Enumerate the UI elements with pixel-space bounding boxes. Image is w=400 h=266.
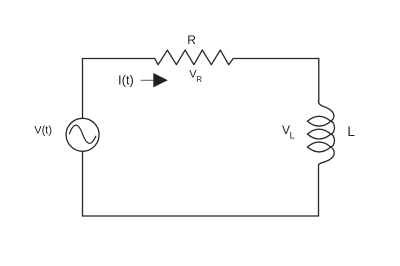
wire: top-right segment <box>233 58 319 60</box>
wire: left side upper <box>82 59 84 119</box>
inductor L entry hook <box>319 101 334 122</box>
inductor L loop 3 <box>307 142 330 152</box>
inductor L exit hook <box>319 147 335 165</box>
svg-text:L: L <box>347 124 355 139</box>
wire: right side lower <box>318 165 320 216</box>
resistor R <box>155 50 234 65</box>
svg-text:R: R <box>187 33 196 47</box>
wire: right side upper <box>318 59 320 101</box>
inductor L loop 2 <box>307 129 330 139</box>
wire: left side lower <box>82 151 84 216</box>
svg-text:V(t): V(t) <box>34 124 52 136</box>
inductor L link arc 2-3 <box>331 134 335 147</box>
current arrow head <box>153 73 168 87</box>
svg-text:R: R <box>196 75 202 84</box>
inductor L loop 1 <box>307 116 330 126</box>
AC voltage source V(t) circle <box>66 118 99 151</box>
wire: bottom segment <box>83 215 319 217</box>
current arrow shaft <box>141 79 153 81</box>
wire: top-left segment <box>83 58 155 60</box>
svg-text:I(t): I(t) <box>118 73 134 88</box>
svg-text:L: L <box>290 131 295 141</box>
AC voltage source sine wave <box>69 125 95 143</box>
inductor L link arc 1-2 <box>331 121 335 134</box>
